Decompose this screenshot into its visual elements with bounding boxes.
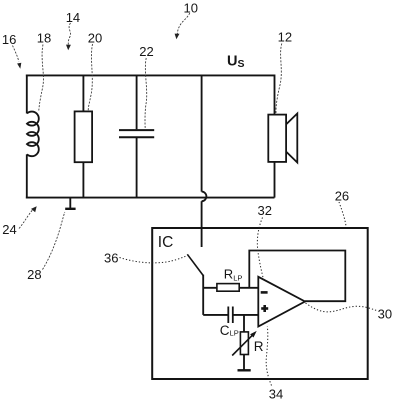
- leader for 12: [276, 44, 282, 114]
- wire switch to filter node: [202, 275, 204, 315]
- svg-text:CLP: CLP: [220, 323, 239, 338]
- inductor 18 coil: [27, 112, 39, 157]
- variable resistor arrow shaft: [232, 335, 253, 356]
- switch 36 arm: [187, 254, 203, 275]
- wire variable resistor to ground: [243, 355, 245, 371]
- leader for 36 dotted: [120, 256, 186, 263]
- svg-text:US: US: [227, 54, 245, 71]
- resistor RLP: [217, 284, 239, 292]
- svg-text:18: 18: [37, 31, 51, 46]
- svg-text:16: 16: [2, 32, 16, 47]
- svg-text:12: 12: [278, 30, 292, 45]
- svg-text:28: 28: [27, 267, 41, 282]
- svg-text:26: 26: [335, 188, 349, 203]
- ground 28 bar: [65, 208, 75, 210]
- leader for 34 dotted: [266, 327, 271, 386]
- wire left branch upper: [26, 75, 28, 114]
- svg-text:24: 24: [2, 222, 16, 237]
- wire capacitor branch lower: [136, 137, 138, 197]
- svg-text:20: 20: [88, 30, 102, 45]
- svg-text:30: 30: [378, 307, 392, 322]
- svg-text:22: 22: [139, 44, 153, 59]
- wire down to variable resistor: [243, 315, 245, 332]
- loudspeaker 12 horn: [286, 114, 297, 163]
- ground 28 stub: [69, 198, 71, 209]
- svg-text:36: 36: [104, 250, 118, 265]
- wire non-inverting input left: [203, 314, 228, 316]
- leader for 10 with arrowhead: [177, 13, 190, 35]
- svg-text:32: 32: [258, 203, 272, 218]
- capacitor CLP plates: [228, 307, 233, 324]
- wire capacitor branch upper: [136, 75, 138, 129]
- op-amp plus sign: [261, 305, 268, 312]
- variable resistor arrow head: [250, 331, 257, 338]
- svg-text:R: R: [254, 339, 264, 354]
- wire into IC to switch contact: [201, 201, 203, 247]
- leader for 16 with arrowhead: [13, 46, 19, 62]
- svg-text:10: 10: [184, 1, 198, 16]
- leader for 22: [145, 58, 147, 129]
- leader for 26 dotted: [339, 202, 346, 228]
- op-amp minus sign: [261, 291, 268, 294]
- ground 34 bar: [238, 369, 251, 371]
- wire resistor branch lower: [82, 162, 84, 197]
- svg-text:RLP: RLP: [224, 267, 243, 283]
- leader for 28: [43, 212, 65, 270]
- wire hop over bottom rail: [202, 192, 207, 202]
- leader for 20: [88, 44, 92, 111]
- wire bottom rail: [26, 197, 275, 199]
- leader for 24 with arrowhead: [19, 210, 33, 229]
- leader for 18: [39, 45, 44, 111]
- variable resistor R body: [240, 332, 248, 355]
- capacitor 22: [119, 130, 154, 137]
- svg-text:34: 34: [269, 387, 283, 400]
- leader for 30 dotted: [306, 303, 377, 312]
- wire resistor branch upper: [82, 75, 84, 111]
- loudspeaker 12 body: [268, 115, 286, 162]
- wire speaker branch upper: [274, 75, 276, 115]
- wire left branch lower: [26, 154, 28, 198]
- feedback block rectangle: [249, 251, 345, 302]
- wire inverting input: [203, 287, 259, 289]
- svg-text:14: 14: [66, 10, 80, 25]
- IC box 26: [152, 228, 368, 379]
- leader for 14 with arrowhead: [68, 23, 70, 45]
- leader for 32 dotted: [257, 218, 263, 280]
- wire tap branch (node to IC): [201, 75, 203, 191]
- wire speaker branch lower: [274, 162, 276, 198]
- resistor 20: [75, 111, 93, 162]
- svg-text:IC: IC: [158, 234, 174, 251]
- wire non-inverting input right: [233, 314, 259, 316]
- wire top rail: [26, 74, 275, 76]
- op-amp 30 triangle: [258, 277, 305, 327]
